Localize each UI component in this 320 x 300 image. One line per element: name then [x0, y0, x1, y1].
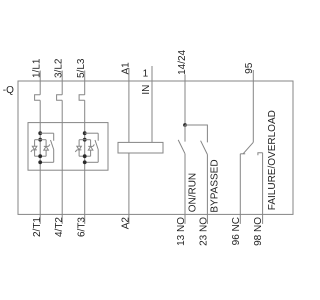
- phase L3 thyristor loop top bar: [79, 139, 91, 141]
- terminal 3/L2 stub wire: [61, 71, 63, 95]
- phase L3 bypass bottom junction dot: [83, 160, 87, 164]
- thyristor module box: [28, 123, 108, 171]
- svg-text:ON/RUN: ON/RUN: [188, 173, 199, 212]
- wire phase L3 vertical: [84, 100, 86, 214]
- svg-text:A2: A2: [121, 217, 132, 230]
- phase L1 bypass bottom junction dot: [38, 160, 42, 164]
- svg-text:13 NO: 13 NO: [176, 217, 187, 246]
- thyristor V2 (phase L1, up): [44, 140, 50, 157]
- contact 23-24 BYPASSED (NO): [201, 141, 208, 215]
- terminal 96 stub wire: [239, 214, 241, 224]
- terminal 4/T2 stub wire: [61, 214, 63, 224]
- svg-text:IN: IN: [141, 85, 152, 95]
- svg-text:14/24: 14/24: [177, 49, 188, 74]
- wire 96: [239, 154, 241, 215]
- terminal 1/L1 stub wire: [39, 71, 41, 95]
- svg-text:96 NC: 96 NC: [231, 217, 242, 245]
- wire IN input: [151, 66, 153, 142]
- wire 95 common: [252, 70, 254, 142]
- svg-text:FAILURE/OVERLOAD: FAILURE/OVERLOAD: [267, 110, 278, 210]
- junction dot 14/24 split: [183, 123, 187, 127]
- thyristor V3 (phase L3, down): [75, 140, 81, 157]
- wire 14/24 to 23 branch: [185, 125, 207, 142]
- terminal 98 stub wire: [262, 214, 264, 224]
- svg-text:98 NO: 98 NO: [253, 217, 264, 246]
- contact 96 NC landing bar: [240, 153, 245, 155]
- wire 14/24: [184, 75, 186, 126]
- svg-text:23 NO: 23 NO: [198, 217, 209, 246]
- device outline box: [18, 81, 293, 214]
- wire A1: [128, 68, 130, 142]
- terminal 5/L3 plug notch: [79, 95, 85, 101]
- terminal 1/L1 plug notch: [35, 95, 41, 101]
- phase L1 thyristor loop top junction dot: [38, 138, 42, 142]
- phase L1 bypass top link wire: [40, 132, 54, 134]
- terminal 3/L2 plug notch: [57, 95, 63, 101]
- wire phase L1 vertical: [39, 100, 41, 214]
- wire phase L2 vertical: [61, 100, 63, 214]
- terminal 13 stub wire: [184, 214, 186, 224]
- contact 13-14 ON/RUN (NO): [178, 125, 185, 214]
- svg-text:3/L2: 3/L2: [54, 58, 65, 78]
- bypass contact K1 (phase L1): [51, 133, 54, 162]
- phase L3 bypass top junction dot: [83, 131, 87, 135]
- phase L1 thyristor loop top bar: [35, 139, 47, 141]
- terminal 23 stub wire: [206, 214, 208, 224]
- wire A2: [128, 153, 130, 224]
- bypass contact K2 (phase L3): [95, 133, 98, 162]
- svg-text:4/T2: 4/T2: [54, 217, 65, 237]
- svg-text:BYPASSED: BYPASSED: [210, 159, 221, 212]
- terminal 5/L3 stub wire: [84, 71, 86, 95]
- phase L3 thyristor loop top junction dot: [83, 138, 87, 142]
- terminal 6/T3 stub wire: [84, 214, 86, 224]
- phase L3 thyristor loop bottom bar: [79, 155, 91, 157]
- svg-text:1: 1: [143, 69, 149, 80]
- svg-text:6/T3: 6/T3: [77, 217, 88, 237]
- svg-text:5/L3: 5/L3: [76, 58, 87, 78]
- svg-text:A1: A1: [120, 62, 131, 75]
- contact 98 NO landing bracket: [258, 153, 263, 156]
- phase L3 bypass bottom link wire: [85, 161, 99, 163]
- phase L1 thyristor loop bottom bar: [35, 155, 47, 157]
- phase L1 bypass bottom link wire: [40, 161, 54, 163]
- phase L3 thyristor loop bottom junction dot: [83, 154, 87, 158]
- wire 98: [262, 153, 264, 215]
- phase L1 thyristor loop bottom junction dot: [38, 154, 42, 158]
- svg-text:2/T1: 2/T1: [32, 217, 43, 237]
- thyristor V1 (phase L1, down): [31, 140, 37, 157]
- thyristor V4 (phase L3, up): [88, 140, 94, 157]
- control unit U1: [118, 142, 163, 153]
- svg-text:1/L1: 1/L1: [32, 58, 43, 78]
- phase L1 bypass top junction dot: [38, 131, 42, 135]
- changeover contact arm 95: [243, 142, 253, 153]
- phase L3 bypass top link wire: [85, 132, 99, 134]
- svg-text:-Q: -Q: [3, 85, 14, 96]
- terminal 2/T1 stub wire: [39, 214, 41, 224]
